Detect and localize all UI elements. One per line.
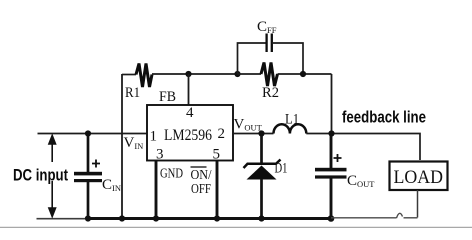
node: pin 3 to ground rail [153,215,159,221]
wire: pin 2 output to diode node [233,133,274,135]
CIN top plate [74,172,102,176]
svg-text:3: 3 [156,147,164,163]
wire: CFF loop right riser [272,43,303,74]
node: CIN top junction [85,130,91,136]
wire: LOAD return line to ground [331,217,397,219]
wire: LOAD bottom lead [417,190,419,218]
svg-text:LOAD: LOAD [394,167,444,188]
svg-text:FB: FB [159,89,176,105]
wire: D1 bottom lead [260,179,263,219]
wire: return line after hop [404,217,418,219]
wire: FB feedback drop to pin 4 [188,74,190,105]
wire hop on return line [397,213,403,218]
svg-text:2: 2 [218,126,226,142]
wire: top line from left vertical to R1 [122,74,136,76]
svg-text:GND: GND [160,167,183,182]
svg-text:1: 1 [150,129,158,145]
svg-text:DC input: DC input [13,166,68,185]
svg-text:D1: D1 [275,161,288,177]
DC input measurement arrow down [49,181,56,217]
D1 triangle [247,166,277,180]
node: COUT bottom junction [328,215,335,222]
op-amp U1: LM2596 regulator body [147,105,233,161]
wire: R2 segment left [238,73,262,75]
resistor R2 [261,63,278,87]
wire: COUT bottom lead [330,179,333,219]
COUT top plate [315,168,347,172]
wire: output line L1 to LOAD corner [306,134,420,161]
wire: CFF loop left riser [238,43,267,74]
inductor L1 [274,124,307,133]
capacitor CFF [267,34,272,53]
ON/OFF label overline [191,166,207,168]
D1 cathode bar with bent ends [244,160,281,169]
node: left vertical to ground rail [119,215,125,221]
wire: COUT top lead [330,134,333,169]
node: FB junction [185,71,191,77]
wire: R2 to right corner [278,73,332,75]
svg-text:R2: R2 [262,85,279,101]
wire: bottom ground rail thin left part [37,218,89,220]
svg-text:LM2596: LM2596 [164,127,212,144]
node: diode D1 top junction [258,130,264,136]
COUT bottom plate [315,175,347,178]
node: CFF/R2 left junction [234,71,240,77]
CIN plus sign [92,160,100,168]
node: pin 5 to ground rail [214,215,220,221]
svg-text:ON/: ON/ [191,168,212,183]
wire: GND pin 3 drop [155,161,158,219]
wire: CIN top lead [87,134,90,173]
wire: left loop vertical (input node down) [121,74,123,219]
DC input measurement arrow up [49,136,56,163]
node: D1 to ground rail [258,215,264,221]
svg-text:OFF: OFF [191,182,211,197]
capacitor COUT [315,134,375,222]
node: CFF/R2 right junction [300,71,306,77]
wire: left top rail (DC input +) [38,133,148,135]
capacitor CIN [74,130,121,221]
svg-text:4: 4 [186,105,194,121]
LOAD box [390,162,448,191]
svg-text:5: 5 [213,147,221,163]
resistor R1 [136,64,152,88]
svg-text:feedback line: feedback line [342,108,426,127]
wire: CIN bottom lead [87,182,90,219]
wire: ON/OFF pin 5 drop [216,161,219,219]
svg-text:R1: R1 [125,85,140,101]
wire: bottom ground rail thick part [86,217,332,220]
wire: top line R1 to CFF left [152,73,238,75]
wire: D1 top lead [260,134,263,163]
COUT plus sign [334,154,342,162]
wire: feedback line vertical drop [331,74,333,134]
CIN bottom plate [74,179,102,182]
node: COUT / feedback junction [328,130,334,136]
node: CIN bottom junction [85,215,91,221]
faint scan border bottom [0,226,472,228]
svg-text:L1: L1 [285,112,299,128]
diode D1 (catch diode, zener style) [244,134,288,222]
